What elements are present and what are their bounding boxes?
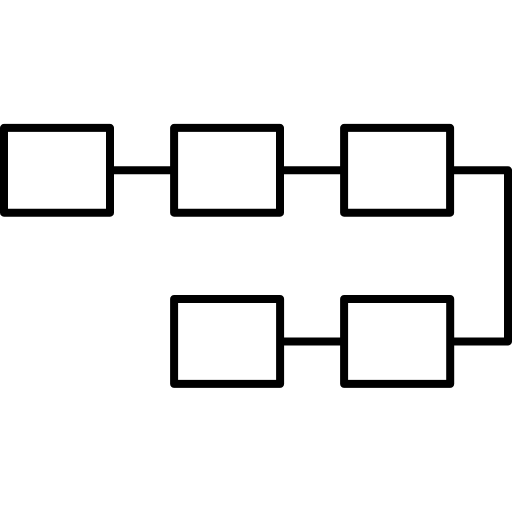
box B5 bottom-right block xyxy=(344,299,450,384)
wire connector C3 L-shaped from box B3 right down to box B5 xyxy=(450,170,508,341)
box B2 top-middle block xyxy=(174,128,280,213)
wire connector C1 between box B1 and box B2 xyxy=(108,166,176,174)
box B3 top-right block xyxy=(344,128,450,213)
box B4 bottom-left block xyxy=(174,299,280,384)
wire connector C4 between box B4 and box B5 xyxy=(278,337,346,345)
box B1 top-left block xyxy=(4,128,110,213)
wire connector C2 between box B2 and box B3 xyxy=(278,166,346,174)
